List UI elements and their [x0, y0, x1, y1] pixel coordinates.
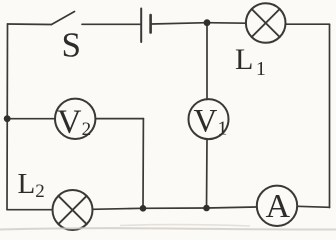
wire voltmeter V2 to corner — [96, 118, 144, 120]
wire voltmeter V1 down to node C — [206, 139, 209, 208]
lamp L2 — [53, 190, 93, 230]
wire lamp L2 to bottom-left corner — [7, 209, 53, 211]
node A junction dot — [204, 19, 211, 26]
wire node A to lamp L1 — [207, 22, 246, 25]
ammeter A value label — [266, 188, 291, 225]
label S — [62, 26, 81, 65]
voltmeter V1 — [189, 99, 229, 139]
battery B1 long plate — [140, 9, 142, 43]
wire ammeter to node C — [207, 207, 257, 208]
voltmeter V1 value label — [194, 104, 228, 140]
voltmeter V2 — [55, 99, 95, 139]
svg-text:A: A — [266, 188, 291, 225]
wire right vertical — [329, 24, 331, 207]
svg-text:S: S — [62, 26, 81, 65]
wire node D to voltmeter V2 — [7, 118, 55, 120]
battery B1 short plate — [149, 15, 152, 33]
svg-text:V1: V1 — [194, 104, 228, 140]
wire node A down to voltmeter V1 — [206, 23, 208, 100]
lamp L1 — [246, 3, 286, 43]
voltmeter V2 value label — [57, 104, 91, 141]
wire bottom-right corner to ammeter — [297, 206, 329, 207]
wire lamp L1 to top-right corner — [286, 23, 330, 25]
node B junction dot — [140, 205, 147, 212]
ammeter A — [257, 186, 297, 226]
wire corner down to node B — [142, 119, 144, 209]
wire left vertical — [6, 24, 9, 209]
scan edge artifact bottom — [0, 225, 336, 230]
wire node C to node B — [143, 207, 207, 209]
svg-text:V2: V2 — [57, 104, 91, 141]
wire top-left segment — [8, 23, 52, 26]
label L1 — [235, 43, 266, 80]
node C junction dot — [203, 205, 210, 212]
svg-text:L2: L2 — [18, 168, 45, 202]
wire battery to node A — [152, 23, 207, 24]
node D junction dot — [4, 115, 11, 122]
switch S — [52, 12, 141, 25]
svg-text:L1: L1 — [235, 43, 266, 80]
wire node B to lamp L2 — [93, 208, 144, 209]
label L2 — [18, 168, 45, 202]
